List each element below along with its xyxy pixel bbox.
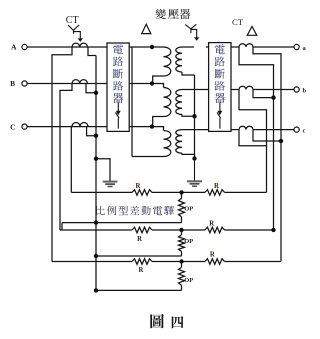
junction bus-ground <box>94 157 98 161</box>
node b terminal <box>294 87 299 92</box>
wire CT-a left tap <box>239 47 274 230</box>
junction row2 right corner <box>271 228 275 232</box>
node B terminal <box>22 81 27 86</box>
wire b breaker to CT <box>231 89 239 91</box>
wire OP1 return <box>62 223 182 230</box>
wire neutral bus <box>95 56 97 291</box>
CT primary winding phase C <box>72 123 88 127</box>
junction bus-return3 <box>94 288 98 292</box>
resistor R row2 left <box>132 227 152 233</box>
svg-text:CT: CT <box>232 17 244 27</box>
label relay 比例型差動電驛 <box>96 206 105 215</box>
wire A breaker to transformer <box>129 46 163 48</box>
label transformer 變壓器 <box>156 9 166 19</box>
CT primary winding phase b <box>239 86 253 89</box>
junction OP2 top <box>179 228 183 232</box>
ground left CT neutral <box>96 159 110 181</box>
wire CT-c right tap <box>253 130 281 141</box>
resistor R row3 left <box>132 259 152 265</box>
transformer secondary winding 1 <box>182 46 194 48</box>
left CT wye symbol with arrow <box>68 25 79 34</box>
junction b2 <box>271 95 275 99</box>
transformer primary winding 2 <box>152 84 164 88</box>
svg-text:OP: OP <box>184 238 193 245</box>
resistor R row1 right <box>205 190 225 196</box>
circuit breaker CB1 box <box>107 43 129 131</box>
wire a gap stub <box>206 46 209 48</box>
svg-text:R: R <box>139 267 144 274</box>
junction A-primary <box>150 45 154 49</box>
svg-text:c: c <box>303 127 306 134</box>
wire CT-b right tap <box>253 90 274 98</box>
node c terminal <box>294 127 299 132</box>
junction bus-C <box>94 134 98 138</box>
transformer secondary winding 2 <box>182 89 209 91</box>
svg-text:R: R <box>209 221 214 228</box>
junction OP1 top <box>179 190 183 194</box>
wire C breaker to transformer <box>129 126 152 128</box>
wire CT-C right tap to neutral bus <box>87 127 96 136</box>
svg-text:CT: CT <box>66 15 79 26</box>
transformer primary delta symbol <box>142 24 151 33</box>
wire phase C to breaker <box>27 126 107 128</box>
breaker CB1 contact symbol <box>117 102 119 110</box>
junction neutral-ground <box>192 156 196 160</box>
resistor R row1 left <box>132 190 152 196</box>
wire CT-A left tap <box>52 47 72 262</box>
svg-text:B: B <box>10 79 15 88</box>
wire CT-B left tap <box>60 84 72 231</box>
wire b CT to terminal <box>253 89 294 91</box>
svg-text:A: A <box>11 43 17 52</box>
node C terminal <box>22 124 27 129</box>
CT primary winding phase A <box>72 43 88 47</box>
operating coil OP2 <box>181 230 183 235</box>
wire delta closing (A to winding3) <box>131 47 133 157</box>
resistor R row3 right <box>205 259 225 265</box>
svg-text:OP: OP <box>184 206 193 213</box>
wire CT-A right tap to neutral bus <box>88 47 96 56</box>
wire CT-B right tap to neutral bus <box>86 84 96 93</box>
transformer primary winding 3 <box>152 127 164 131</box>
CT primary winding phase B <box>72 80 88 84</box>
CT primary winding phase a <box>239 44 253 47</box>
operating coil OP3 <box>181 262 183 268</box>
wire a breaker to CT <box>231 46 239 48</box>
wire relay row 1 <box>71 191 266 193</box>
wire CT-c left tap <box>239 130 267 146</box>
junction OP3 top <box>179 259 183 263</box>
wire CT-C left tap <box>70 127 72 193</box>
breaker CB2 contact symbol <box>219 102 221 110</box>
junction bus-return2 <box>94 254 98 258</box>
label CB1 (vertical) <box>113 44 123 54</box>
wire phase A to breaker <box>27 46 107 48</box>
node A terminal <box>22 44 27 49</box>
svg-text:OP: OP <box>184 277 193 284</box>
transformer secondary wye symbol with arrow <box>185 24 196 33</box>
junction neutral-w2 <box>192 114 196 118</box>
wire c breaker to CT <box>231 129 239 131</box>
svg-text:b: b <box>303 87 307 94</box>
wire OP3 return <box>96 289 182 291</box>
caption 圖四 <box>150 314 164 328</box>
junction B-primary <box>150 81 154 85</box>
wire CT-b left tap <box>239 90 267 193</box>
junction bus-B <box>94 91 98 95</box>
wire relay row 3 <box>52 261 281 263</box>
junction bus-return1 <box>94 220 98 224</box>
svg-text:R: R <box>137 236 142 243</box>
label CB2 (vertical) <box>215 44 225 54</box>
resistor R row2 right <box>205 227 225 233</box>
operating coil OP1 <box>181 192 183 198</box>
junction C-primary <box>150 124 154 128</box>
CT primary winding phase c <box>239 126 253 129</box>
wire secondary neutral <box>194 75 196 159</box>
transformer secondary winding 3 <box>182 129 209 131</box>
wire relay row 2 <box>60 229 274 231</box>
transformer primary winding 1 <box>164 47 171 76</box>
wire B breaker to transformer <box>129 83 152 85</box>
svg-text:C: C <box>10 123 15 132</box>
wire phase B to breaker <box>27 83 107 85</box>
svg-text:R: R <box>214 183 219 190</box>
wire OP2 return <box>96 255 182 257</box>
junction c2 <box>279 139 283 143</box>
wire a CT to terminal <box>253 46 294 48</box>
node a terminal <box>294 44 299 49</box>
right CT delta symbol <box>247 26 257 35</box>
wire c CT to terminal <box>253 129 294 131</box>
svg-text:R: R <box>210 251 215 258</box>
wire CT-a right tap <box>253 47 281 262</box>
ground transformer neutral <box>194 159 196 181</box>
circuit breaker CB2 box <box>209 43 231 132</box>
svg-text:R: R <box>136 183 141 190</box>
